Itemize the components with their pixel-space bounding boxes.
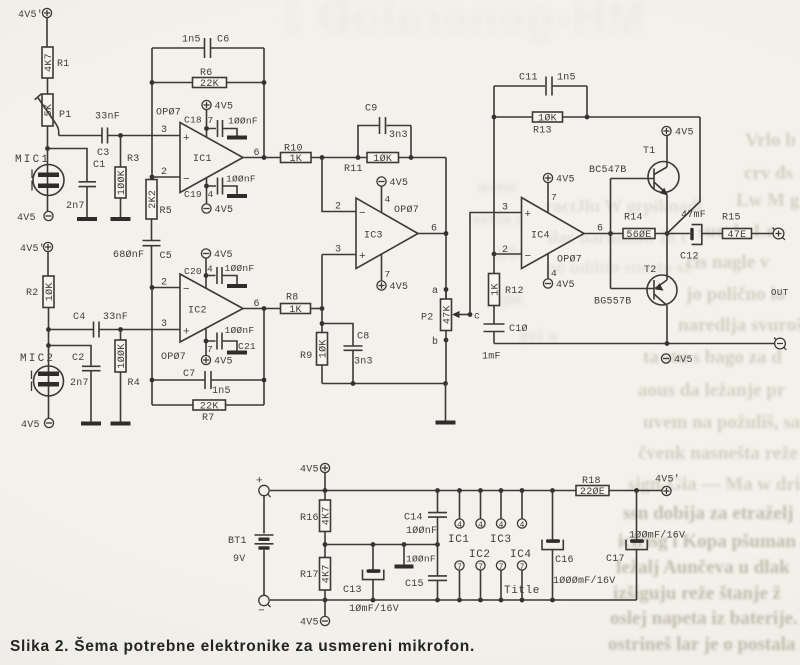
ground (under C2) [81, 422, 101, 426]
svg-text:R12: R12 [505, 286, 524, 297]
wire (pin 2) [152, 176, 180, 178]
svg-text:IC1: IC1 [193, 154, 212, 165]
pin 4 bubble IC4 [517, 491, 526, 531]
node [150, 285, 155, 290]
pin 7 bubble IC4 [517, 561, 526, 600]
svg-text:2: 2 [335, 202, 341, 213]
wire (feedback to output node) [667, 117, 700, 234]
resistor R5 2K2 [146, 180, 157, 220]
wire [206, 178, 208, 204]
resistor R2 1ØK [43, 276, 54, 308]
resistor R17 4K7 [320, 558, 331, 591]
wire [205, 258, 207, 288]
capacitor C7 1n5 (feedback) [152, 369, 264, 397]
svg-text:4V5: 4V5 [214, 250, 233, 261]
wire (pin 2) [152, 287, 180, 289]
svg-text:C5: C5 [160, 251, 173, 262]
wire (IC4 output) [584, 233, 623, 235]
svg-text:OPØ7: OPØ7 [156, 107, 181, 119]
wire [47, 78, 49, 94]
svg-text:1ØK: 1ØK [538, 113, 557, 125]
wire [90, 371, 92, 422]
svg-text:4V5: 4V5 [556, 280, 575, 291]
IC2 pin 7 / +4V5 [201, 355, 232, 367]
resistor R16 4K7 [320, 500, 331, 532]
op-amp IC1 OP07 [156, 107, 243, 193]
resistor R14 56ØE [623, 229, 655, 239]
svg-text:2n7: 2n7 [66, 201, 85, 212]
transistor T1 BC547B [589, 146, 679, 196]
svg-text:Title: Title [504, 585, 540, 597]
svg-text:C13: C13 [343, 585, 362, 596]
wire [48, 308, 50, 419]
svg-text:C21: C21 [238, 341, 256, 352]
capacitor C2 2n7 [70, 353, 101, 389]
resistor R11 1ØK [367, 153, 399, 163]
svg-text:1ØØØmF/16V: 1ØØØmF/16V [553, 575, 616, 587]
resistor R18 22ØE [576, 486, 609, 496]
svg-text:C6: C6 [217, 35, 230, 46]
capacitor C4 33nF [49, 312, 129, 338]
resistor R12 1K [489, 274, 500, 306]
wire [206, 110, 208, 138]
IC3 pin 4 / -4V5 [377, 177, 408, 189]
svg-text:R4: R4 [128, 378, 141, 389]
svg-text:−: − [525, 251, 532, 263]
wire [493, 254, 495, 324]
svg-text:T2: T2 [644, 265, 657, 276]
svg-text:R10: R10 [284, 144, 303, 155]
node [46, 343, 51, 348]
ground (under C1) [77, 217, 97, 221]
svg-text:C1Ø: C1Ø [509, 323, 528, 335]
svg-text:1ØØK: 1ØØK [116, 343, 128, 368]
svg-text:4V5: 4V5 [300, 618, 319, 629]
pin 7 bubble IC3 [496, 561, 505, 600]
capacitor 100nF (IC2 pin4 decoupling) [206, 267, 237, 284]
capacitor C15 100nF [405, 545, 447, 601]
svg-text:7: 7 [520, 563, 525, 572]
wire (T2 collector to rail) [666, 306, 668, 344]
svg-text:C9: C9 [365, 104, 378, 115]
svg-text:P2: P2 [421, 313, 434, 324]
svg-text:3n3: 3n3 [389, 130, 408, 141]
wire [86, 187, 88, 217]
wire [324, 532, 326, 558]
svg-text:7: 7 [208, 115, 214, 126]
capacitor 100nF (IC1 pin7 decoupling) [207, 120, 238, 137]
svg-text:R5: R5 [160, 206, 173, 217]
svg-text:3n3: 3n3 [354, 357, 373, 368]
wire (ground run) [322, 383, 446, 385]
capacitor C9 3n3 (IC3 feedback) [358, 104, 411, 158]
svg-text:IC3: IC3 [364, 231, 383, 242]
svg-text:1n5: 1n5 [212, 386, 231, 397]
svg-text:C1: C1 [93, 160, 106, 171]
svg-text:68ØnF: 68ØnF [113, 249, 144, 261]
resistor R13 1ØK [533, 112, 563, 122]
svg-text:33nF: 33nF [95, 112, 120, 123]
capacitor C11 1n5 (feedback) [494, 73, 587, 96]
svg-text:IC2: IC2 [469, 549, 491, 561]
IC1 pin 4 / -4V5 [202, 204, 233, 216]
svg-text:4: 4 [457, 521, 462, 530]
svg-text:1n5: 1n5 [557, 73, 576, 84]
svg-text:−: − [183, 284, 190, 296]
svg-text:C18: C18 [184, 115, 202, 126]
svg-text:3: 3 [335, 245, 341, 256]
wire (R10/R11 row) [311, 157, 446, 159]
wire [445, 384, 447, 421]
wire [324, 590, 326, 616]
wire (T1 emitter to node) [666, 195, 668, 234]
ground (mid rail) [395, 545, 414, 569]
svg-text:4K7: 4K7 [44, 53, 55, 72]
svg-text:OPØ7: OPØ7 [394, 204, 419, 216]
svg-text:47K: 47K [443, 305, 454, 324]
wire (P1 to MIC1) [47, 126, 49, 211]
output jack - [774, 338, 786, 350]
svg-text:+: + [359, 251, 366, 263]
svg-text:4V5: 4V5 [17, 213, 36, 224]
svg-text:3: 3 [502, 203, 508, 214]
svg-text:6: 6 [254, 148, 260, 159]
wire [655, 233, 690, 235]
svg-text:4: 4 [499, 521, 504, 530]
wire (negative rail) [270, 599, 637, 601]
svg-text:7: 7 [207, 344, 213, 355]
wire [381, 254, 383, 281]
svg-text:R6: R6 [200, 68, 213, 79]
svg-text:R3: R3 [127, 154, 140, 165]
wire (C5 to IC2 pin 2) [151, 246, 153, 288]
supply terminal +4V5' (right) [655, 474, 680, 496]
IC2 feedback right rail [263, 309, 265, 406]
node [118, 327, 123, 332]
svg-text:C15: C15 [405, 579, 424, 590]
svg-text:T1: T1 [643, 146, 656, 157]
wire (IC4 pin 2) [494, 253, 522, 255]
ground (under R4) [111, 422, 131, 426]
svg-text:1ØØnF: 1ØØnF [225, 263, 255, 274]
supply terminal -4V5 (below MIC1) [17, 211, 53, 224]
wire (to IC3 pin 2) [322, 158, 356, 212]
svg-text:R17: R17 [300, 570, 319, 581]
svg-text:C2: C2 [72, 353, 85, 364]
svg-text:1ØØmF/16V: 1ØØmF/16V [629, 530, 685, 542]
svg-text:4: 4 [208, 189, 214, 200]
resistor R15 47E [723, 229, 752, 239]
IC4 feedback left rail [493, 86, 495, 254]
svg-text:BG557B: BG557B [594, 297, 632, 308]
wire (to C2) [49, 346, 92, 367]
svg-text:MIC2: MIC2 [20, 353, 55, 365]
capacitor C8 3n3 [322, 324, 373, 384]
node [118, 133, 123, 138]
svg-text:C4: C4 [73, 312, 86, 323]
wire (IC1 output to R10) [243, 157, 281, 159]
svg-text:−: − [258, 606, 265, 618]
svg-text:OUT: OUT [771, 288, 789, 298]
svg-text:1ØØnF: 1ØØnF [226, 174, 256, 185]
ground (under R3) [111, 217, 131, 221]
svg-text:R16: R16 [300, 513, 319, 524]
op-amp IC2 OP07 [161, 274, 243, 363]
svg-text:4K7: 4K7 [322, 564, 333, 583]
svg-text:4V5: 4V5 [674, 355, 693, 366]
potentiometer P1 5K [42, 94, 53, 126]
svg-text:7: 7 [385, 269, 391, 280]
svg-text:4V5': 4V5' [20, 243, 45, 255]
svg-text:+: + [183, 133, 190, 145]
node [46, 327, 51, 332]
ghost bleed-through headline (top) [285, 0, 645, 44]
capacitor C10 1mF [482, 323, 528, 363]
capacitor 100nF (IC2 pin7 decoupling) [206, 333, 237, 351]
svg-text:1ØØnF: 1ØØnF [406, 554, 436, 565]
wire [151, 219, 153, 240]
wire (negative output rail) [494, 343, 775, 345]
battery BT1 9V [228, 496, 274, 595]
svg-text:1K: 1K [289, 305, 302, 316]
wire (C3 to IC1 pin 3) [108, 135, 181, 137]
svg-text:IC3: IC3 [490, 534, 512, 546]
wire (R13 row) [494, 116, 700, 118]
svg-text:1ØØnF: 1ØØnF [225, 325, 255, 336]
svg-text:4V5: 4V5 [675, 128, 694, 139]
pin 7 bubble IC2 [476, 561, 485, 600]
wire (IC3 output loop) [418, 158, 446, 300]
svg-text:R9: R9 [300, 351, 313, 362]
svg-text:4: 4 [520, 521, 525, 530]
svg-text:4V5: 4V5 [390, 282, 409, 293]
svg-text:6: 6 [597, 224, 603, 235]
caption [10, 638, 475, 656]
resistor R1 4K7 [42, 47, 53, 78]
wire [752, 233, 774, 235]
svg-text:IC1: IC1 [448, 534, 470, 546]
svg-text:4: 4 [551, 268, 557, 279]
wire [205, 328, 207, 355]
svg-text:a: a [432, 286, 438, 297]
svg-text:47mF: 47mF [681, 210, 706, 221]
svg-text:47E: 47E [728, 230, 747, 241]
svg-text:22K: 22K [200, 79, 219, 90]
svg-text:7: 7 [457, 563, 462, 572]
svg-text:c: c [474, 312, 480, 323]
svg-text:22K: 22K [200, 402, 219, 413]
svg-text:+: + [525, 209, 532, 221]
wire [46, 18, 48, 47]
resistor R10 1K [281, 153, 312, 163]
op-amp IC3 OP07 [356, 198, 419, 269]
node (IC1 pin2 / R5) [150, 175, 155, 180]
P1 wiper arrow [35, 94, 59, 136]
IC1 pin 7 / +4V5 [202, 100, 233, 112]
svg-text:R14: R14 [624, 213, 643, 224]
capacitor C13 10mF/16V (electrolytic) [343, 545, 399, 616]
capacitor C1 2n7 [66, 160, 106, 212]
pin 7 bubble IC1 [455, 561, 464, 600]
microphone MIC1 [15, 154, 64, 196]
wire (R6 row) [152, 82, 264, 84]
svg-text:IC4: IC4 [531, 231, 550, 242]
svg-text:1n5: 1n5 [182, 35, 201, 46]
wire [120, 136, 122, 218]
capacitor C14 100nF [404, 491, 447, 545]
wire [445, 290, 447, 384]
wire [547, 183, 549, 213]
supply stub -4V5 [300, 616, 330, 628]
op-amp IC4 OP07 [522, 198, 585, 269]
supply terminal +4V5 (T1) [662, 126, 694, 138]
svg-text:C14: C14 [404, 513, 423, 524]
supply terminal +4V5' (MIC2) [20, 242, 53, 255]
svg-text:6: 6 [431, 224, 437, 235]
wire (mid rail) [325, 544, 438, 546]
resistor R4 1ØØK [115, 340, 126, 372]
wire (C4 to IC2 pin 3) [99, 329, 180, 331]
wire (IC2 output) [243, 308, 281, 310]
svg-text:C12: C12 [680, 252, 699, 263]
svg-text:2: 2 [502, 245, 508, 256]
svg-text:C16: C16 [555, 555, 574, 566]
wire (base drive rail) [611, 179, 655, 289]
svg-text:C17: C17 [606, 554, 625, 565]
svg-text:−: − [359, 208, 366, 220]
svg-text:4V5: 4V5 [21, 420, 40, 431]
svg-text:BT1: BT1 [228, 536, 247, 547]
capacitor 100nF (IC1 pin4 decoupling) [207, 178, 238, 195]
svg-text:BC547B: BC547B [589, 165, 627, 176]
pin 4 bubble IC2 [476, 491, 485, 531]
supply terminal -4V5 (below MIC2) [21, 418, 54, 431]
svg-text:1ØK: 1ØK [318, 339, 330, 358]
svg-text:1ØK: 1ØK [373, 153, 392, 165]
node [150, 80, 155, 85]
capacitor C5 680nF [113, 241, 172, 263]
potentiometer P2 47K [444, 287, 449, 292]
wire [321, 365, 323, 384]
svg-text:2K2: 2K2 [148, 190, 159, 209]
wire [493, 332, 495, 344]
ground (main) [436, 421, 456, 425]
svg-text:56ØE: 56ØE [626, 229, 651, 241]
svg-text:R18: R18 [582, 476, 601, 487]
svg-text:MIC1: MIC1 [15, 154, 50, 166]
svg-text:R11: R11 [344, 164, 363, 175]
pin 4 bubble IC1 [455, 491, 464, 531]
ground [227, 351, 247, 355]
capacitor C17 100mF/16V (electrolytic) [606, 491, 685, 601]
svg-text:C11: C11 [519, 73, 538, 84]
svg-text:22ØE: 22ØE [580, 486, 605, 498]
wire (P1 wiper to C3) [59, 135, 102, 137]
svg-text:C7: C7 [183, 369, 196, 380]
svg-text:2: 2 [161, 167, 167, 178]
svg-text:R2: R2 [26, 288, 39, 299]
capacitor C12 47mF [680, 210, 706, 263]
svg-text:C3: C3 [97, 148, 110, 159]
svg-text:3: 3 [161, 125, 167, 136]
svg-text:1K: 1K [289, 154, 302, 165]
capacitor C16 1000mF/16V (electrolytic) [542, 491, 616, 601]
capacitor C3 33nF [95, 112, 120, 160]
wire [586, 86, 588, 117]
resistor R3 1ØØK [115, 167, 126, 198]
svg-text:1K: 1K [491, 283, 502, 296]
svg-text:R7: R7 [202, 413, 215, 424]
IC4 pin 7 / +4V5 [543, 173, 574, 185]
wire [324, 473, 326, 500]
svg-text:1ØmF/16V: 1ØmF/16V [349, 603, 399, 615]
resistor R6 22K [193, 78, 227, 88]
svg-text:1ØØK: 1ØØK [116, 170, 128, 195]
svg-text:2: 2 [161, 278, 167, 289]
svg-text:4: 4 [385, 194, 391, 205]
svg-text:OPØ7: OPØ7 [161, 351, 186, 363]
svg-text:6: 6 [254, 299, 260, 310]
svg-text:2n7: 2n7 [70, 378, 89, 389]
IC2 pin 4 / -4V5 [201, 249, 232, 261]
wire [702, 233, 723, 235]
wire (T1 collector to +4V5) [666, 136, 668, 167]
svg-text:4: 4 [478, 521, 483, 530]
svg-text:1ØK: 1ØK [44, 282, 56, 301]
svg-text:7: 7 [551, 192, 557, 203]
wire (R8 node to IC3 pin 3 and R9) [322, 255, 356, 333]
svg-text:4V5': 4V5' [655, 474, 680, 486]
svg-text:C20: C20 [184, 266, 202, 277]
resistor R8 1K [281, 304, 311, 314]
ghost bleed-through text column (right margin) [745, 130, 796, 152]
P2 wiper arrow [454, 314, 470, 316]
supply terminal +4V5' (top left) [18, 8, 52, 21]
svg-text:7: 7 [499, 563, 504, 572]
svg-text:b: b [432, 336, 438, 348]
svg-text:P1: P1 [59, 110, 72, 121]
svg-text:+: + [183, 327, 190, 339]
output jack + [773, 228, 785, 240]
wire [381, 186, 383, 212]
svg-text:9V: 9V [233, 554, 246, 565]
wire (wiper to IC4 pin 3) [470, 213, 522, 315]
svg-text:4V5: 4V5 [215, 102, 234, 113]
IC2 feedback left rail [151, 288, 153, 406]
svg-text:1mF: 1mF [482, 352, 501, 363]
svg-text:R15: R15 [722, 213, 741, 224]
resistor R9 1ØK [317, 333, 328, 366]
wire [547, 253, 549, 279]
wire [120, 330, 122, 422]
svg-text:33nF: 33nF [103, 312, 128, 323]
node (MIC1 / C1 junction) [45, 146, 50, 151]
supply stub +4V5 [300, 463, 330, 475]
ground [227, 194, 247, 198]
svg-text:IC4: IC4 [510, 549, 532, 561]
svg-text:IC2: IC2 [188, 306, 207, 317]
svg-text:4V5: 4V5 [215, 205, 234, 216]
wire (R7 row) [152, 404, 264, 406]
svg-text:4V5: 4V5 [300, 465, 319, 476]
IC1 feedback right rail [263, 48, 265, 158]
svg-text:3: 3 [161, 319, 167, 330]
svg-text:C8: C8 [357, 332, 370, 343]
wire [311, 308, 323, 310]
svg-text:R13: R13 [533, 126, 552, 137]
svg-text:4K7: 4K7 [322, 506, 333, 525]
svg-text:7: 7 [478, 563, 483, 572]
